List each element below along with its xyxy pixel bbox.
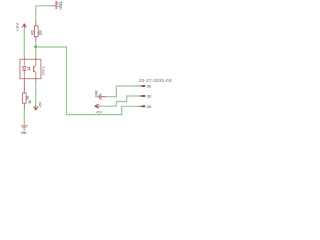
svg-text:J3-1: J3-1 bbox=[146, 85, 151, 89]
svg-text:R3: R3 bbox=[26, 96, 30, 100]
svg-text:+5V: +5V bbox=[95, 110, 102, 114]
wire bbox=[100, 96, 138, 106]
resistor R2 bbox=[30, 21, 42, 42]
power +5V (top) bbox=[15, 23, 27, 32]
svg-text:R2: R2 bbox=[30, 29, 35, 35]
wire bbox=[23, 29, 25, 57]
svg-text:J3-3: J3-3 bbox=[146, 105, 151, 109]
svg-text:OK1: OK1 bbox=[42, 66, 46, 75]
wire bbox=[35, 47, 37, 56]
connector P1 bbox=[56, 1, 57, 9]
junction bbox=[34, 46, 37, 49]
wire bbox=[35, 79, 37, 106]
wire bbox=[35, 42, 37, 47]
svg-text:GND: GND bbox=[21, 130, 27, 135]
connector J3 pin 3 bbox=[138, 105, 152, 109]
svg-text:J3-2: J3-2 bbox=[146, 95, 151, 99]
wire bbox=[36, 47, 138, 115]
svg-text:+5V: +5V bbox=[15, 23, 20, 32]
power +5V (right, arrow left) bbox=[95, 104, 103, 114]
connector P1 labels bbox=[57, 1, 63, 10]
wire bbox=[106, 86, 138, 97]
connector J3 value 22-27-2031-03 bbox=[139, 78, 172, 84]
wire bbox=[23, 110, 25, 126]
connector J3 pin 2 bbox=[138, 95, 152, 99]
optocoupler OK1 bbox=[20, 56, 46, 78]
connector P1 pin bbox=[52, 5, 56, 7]
resistor R3 bbox=[23, 79, 33, 110]
ground (bottom left) bbox=[21, 126, 28, 135]
ground (right) bbox=[93, 90, 106, 100]
svg-text:22-27-2031-03: 22-27-2031-03 bbox=[139, 78, 172, 84]
svg-text:10k: 10k bbox=[38, 29, 43, 35]
power +5V (bottom, arrow down) bbox=[34, 101, 43, 110]
wire bbox=[36, 6, 53, 21]
connector J3 pin 1 bbox=[138, 85, 152, 89]
svg-text:CONN1: CONN1 bbox=[59, 1, 63, 10]
svg-text:+5V: +5V bbox=[39, 101, 43, 108]
